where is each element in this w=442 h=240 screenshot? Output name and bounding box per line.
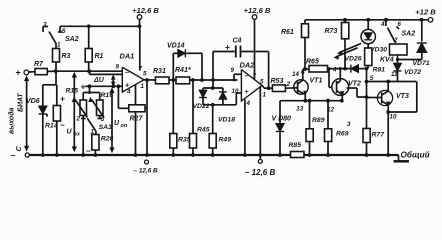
junction R27 bus <box>145 153 149 157</box>
terminal -12.6V left <box>145 160 149 164</box>
resistor R89 <box>309 101 311 129</box>
svg-text:3: 3 <box>347 121 351 128</box>
diode VD22 <box>199 90 207 97</box>
switch SA2 section 1 lever <box>49 32 56 45</box>
svg-text:VD6: VD6 <box>26 98 40 105</box>
svg-text:9: 9 <box>116 64 120 71</box>
svg-text:R31: R31 <box>153 68 166 75</box>
svg-text:VD14: VD14 <box>167 43 185 50</box>
svg-text:R73: R73 <box>325 28 338 35</box>
resistor R73 <box>344 20 346 23</box>
junction R73 rail <box>343 18 347 22</box>
wire emitter rail <box>280 100 342 102</box>
svg-text:R77: R77 <box>372 132 386 139</box>
resistor R27 <box>129 105 145 112</box>
svg-text:R69: R69 <box>336 131 349 138</box>
resistor R69 <box>326 99 330 103</box>
zener diode VD6 <box>39 106 47 114</box>
junction R1 bottom <box>87 69 91 73</box>
wire R31 to R41 <box>169 79 176 81</box>
transistor VT2 emitter <box>337 91 342 95</box>
svg-text:12: 12 <box>327 107 334 114</box>
transistor VT2 base bar <box>336 81 338 93</box>
svg-text:ΔU: ΔU <box>93 77 105 84</box>
wire DA2 pin4 to bus <box>244 100 246 156</box>
resistor R41 <box>176 77 190 84</box>
junction R27 left <box>117 84 121 88</box>
svg-text:10: 10 <box>390 114 397 121</box>
switch SA2 section 2 lever <box>388 28 396 44</box>
svg-text:R3: R3 <box>62 53 71 60</box>
svg-text:С: С <box>14 146 23 152</box>
svg-text:C4: C4 <box>233 38 242 45</box>
capacitor C4 <box>235 46 237 58</box>
resistor R49 <box>212 105 214 134</box>
transistor VT1 emitter <box>298 91 305 95</box>
wire R41 to clamp <box>190 79 238 81</box>
svg-text:2: 2 <box>393 37 398 44</box>
svg-text:R53: R53 <box>271 78 284 85</box>
svg-text:VT3: VT3 <box>396 93 409 100</box>
svg-text:3: 3 <box>101 116 105 123</box>
svg-text:+: + <box>81 82 86 92</box>
wire R61 column <box>304 38 306 70</box>
wire R65 to VT2 base <box>328 68 330 70</box>
junction divider top <box>88 84 92 88</box>
svg-text:R49: R49 <box>219 137 232 144</box>
wire DA1 supply column <box>139 26 141 70</box>
svg-text:SA3: SA3 <box>99 124 112 131</box>
junction R14 bus <box>55 153 59 157</box>
svg-text:R27: R27 <box>130 116 144 123</box>
svg-text:1: 1 <box>57 42 61 49</box>
measurement arrow Uop <box>111 90 113 151</box>
svg-text:VD18: VD18 <box>218 117 235 124</box>
ground symbol <box>398 155 400 161</box>
junction VD6 bus <box>41 153 45 157</box>
svg-text:R81: R81 <box>373 67 386 74</box>
svg-text:KV4: KV4 <box>380 57 394 64</box>
wire R27 left bracket <box>117 86 119 108</box>
svg-text:13: 13 <box>296 105 303 112</box>
switch SA3 lever <box>87 118 96 132</box>
diode VD14 <box>178 49 186 57</box>
svg-text:выхода: выхода <box>8 107 16 134</box>
variable resistor R15 <box>80 100 87 116</box>
resistor R65 <box>305 68 309 70</box>
svg-text:Общий: Общий <box>401 150 430 160</box>
LED VD30 emission arrows <box>340 44 361 53</box>
wire SA3 to bus <box>82 119 84 156</box>
switch SA2 section 2 contact 4 <box>385 20 387 26</box>
resistor R7 <box>29 71 35 73</box>
wire VD6 to bus <box>42 114 44 155</box>
svg-text:9: 9 <box>231 67 235 74</box>
op-amp DA1 triangle <box>122 67 144 92</box>
svg-text:R65: R65 <box>306 59 319 66</box>
svg-text:SA2: SA2 <box>65 36 79 43</box>
svg-text:5: 5 <box>260 79 264 86</box>
svg-text:R85: R85 <box>289 142 302 149</box>
wire clamp top bracket <box>212 80 214 88</box>
resistor R85 <box>291 152 305 158</box>
svg-text:VT2: VT2 <box>348 81 361 88</box>
junction DA1 supply <box>138 24 142 28</box>
terminal input plus <box>24 70 29 75</box>
wire VD80 to bus <box>279 132 281 155</box>
junction clamp top <box>211 78 215 82</box>
resistor R31 <box>156 77 170 84</box>
wire R27 right bracket <box>145 107 147 109</box>
diode VD18 <box>219 92 227 99</box>
wire DA2 output to R53 <box>262 85 272 88</box>
switch SA2 section 1 contact 5 <box>59 26 61 32</box>
terminal output minus <box>25 153 29 157</box>
svg-text:1: 1 <box>141 83 145 90</box>
junction VD14 right <box>200 78 204 82</box>
resistor R35 <box>172 80 174 134</box>
wire DA2 pin1 to bus <box>259 87 261 155</box>
svg-text:БИАТ: БИАТ <box>18 93 25 112</box>
junction DA2 output <box>267 86 271 90</box>
wire upper signal <box>52 70 122 72</box>
terminal +12.6V right <box>252 15 257 20</box>
wire VD26 right <box>359 68 367 70</box>
wire bottom bus right <box>304 154 399 156</box>
junction Uop arrow <box>111 84 115 88</box>
measurement arrow battery <box>26 78 28 150</box>
wire VD71 return <box>421 52 423 60</box>
relay coil KV4 <box>390 44 408 55</box>
switch SA3 contact 2 <box>82 116 84 119</box>
transistor VT3 emitter <box>382 101 388 105</box>
resistor R1 <box>88 26 90 48</box>
wire DA1 output <box>144 79 156 81</box>
junction SA2 rail <box>384 18 388 22</box>
svg-text:–: – <box>60 120 65 130</box>
svg-text:V D80: V D80 <box>272 116 292 123</box>
svg-text:+12,6 В: +12,6 В <box>244 6 271 15</box>
svg-text:–: – <box>245 73 249 80</box>
terminal -12.6V right <box>259 155 261 159</box>
switch SA3 contact 3 <box>99 116 101 119</box>
wire lower input node <box>85 85 122 87</box>
junction VT1 emitter <box>303 99 307 103</box>
svg-text:– 12,6 В: – 12,6 В <box>134 168 159 175</box>
transistor VT3 circle <box>377 90 392 105</box>
svg-text:оп: оп <box>121 123 128 129</box>
svg-text:+: + <box>225 42 230 52</box>
resistor R14 <box>56 85 58 106</box>
transistor VT1 circle <box>294 80 308 94</box>
svg-text:R1: R1 <box>95 53 104 60</box>
diode VD72 <box>394 63 402 71</box>
resistor R45 <box>192 80 194 134</box>
junction VT1 collector node <box>303 67 307 71</box>
svg-text:14: 14 <box>292 71 299 78</box>
diode VD14 loop <box>172 53 174 80</box>
svg-text:VD72: VD72 <box>404 69 421 76</box>
wire upper signal jog <box>89 71 91 74</box>
wire relay drive <box>367 81 417 83</box>
op-amp DA2 triangle <box>241 70 262 102</box>
diode VD71 <box>417 43 427 53</box>
switch SA2 section 1 contact 3 <box>42 27 44 33</box>
diode VD80 wire <box>279 101 281 124</box>
transistor VT3 collector <box>382 91 389 95</box>
svg-text:R7: R7 <box>34 61 44 68</box>
svg-text:DA2: DA2 <box>240 61 256 70</box>
svg-text:4: 4 <box>246 100 251 107</box>
wire DA2 supply column <box>254 19 256 79</box>
svg-text:+12,6 В: +12,6 В <box>132 6 159 15</box>
svg-text:3: 3 <box>43 22 47 29</box>
junction VD71 rail <box>420 18 424 22</box>
wire terminal to rail <box>139 19 141 26</box>
svg-text:VD26: VD26 <box>345 56 362 63</box>
wire clamp bottom bracket <box>202 98 204 105</box>
wire drive column <box>366 69 368 97</box>
svg-text:1: 1 <box>263 92 267 99</box>
svg-text:R14: R14 <box>45 123 58 130</box>
wire R53 to VT1 base <box>285 87 297 89</box>
transistor VT2 collector <box>337 81 341 84</box>
junction R73 VD26 wire <box>343 67 347 71</box>
wire DA1 pin4 to bus <box>135 85 137 155</box>
svg-text:VT1: VT1 <box>310 78 323 85</box>
transistor VT2 circle <box>332 79 349 96</box>
resistor R77 <box>366 97 368 129</box>
transistor VT1 base bar <box>297 82 299 93</box>
resistor R61 <box>304 20 306 24</box>
deltaU double arrow <box>112 77 114 85</box>
diode VD80 <box>276 124 284 132</box>
svg-text:+: + <box>60 94 65 104</box>
svg-text:R45: R45 <box>197 127 210 134</box>
LED VD30 <box>367 20 369 30</box>
svg-text:–: – <box>125 68 129 77</box>
terminal +12V <box>428 18 433 23</box>
svg-text:– 12,6 В: – 12,6 В <box>245 168 275 177</box>
junction R3 bottom <box>54 69 58 73</box>
transistor VT3 base bar <box>381 93 383 104</box>
svg-text:7: 7 <box>139 66 143 73</box>
wire VD72 to drive <box>397 71 399 81</box>
resistor R20 <box>94 132 97 135</box>
svg-text:R15: R15 <box>66 88 79 95</box>
wire VD26 left <box>329 68 350 70</box>
wire +12.6V rail to SA2 <box>60 25 140 27</box>
svg-text:вх: вх <box>74 132 81 138</box>
svg-text:R41*: R41* <box>175 67 191 74</box>
svg-text:4: 4 <box>332 67 337 74</box>
svg-text:R61: R61 <box>281 29 294 36</box>
svg-text:5: 5 <box>62 28 66 35</box>
svg-text:R89: R89 <box>312 117 325 124</box>
transistor VT1 collector <box>298 80 303 84</box>
svg-text:+12 В: +12 В <box>415 8 436 17</box>
wire DA2 upper input jog <box>233 74 235 80</box>
wire VT3 right loop <box>416 82 418 113</box>
diode VD26 <box>351 65 359 73</box>
junction VD14 left <box>171 78 175 82</box>
variable resistor R16 <box>97 100 104 116</box>
diode VD71 column <box>421 20 423 42</box>
svg-text:2: 2 <box>76 116 81 123</box>
wire divider split <box>89 86 91 92</box>
measurement arrow Uvx <box>73 74 75 150</box>
junction R27 output <box>145 78 149 82</box>
svg-text:4: 4 <box>380 21 385 28</box>
svg-text:DA1: DA1 <box>120 52 135 61</box>
junction LED rail <box>366 18 370 22</box>
svg-text:2: 2 <box>286 81 291 88</box>
resistor R53 <box>272 85 285 92</box>
junction R1 top <box>87 24 91 28</box>
junction R49 top <box>211 103 215 107</box>
svg-text:4: 4 <box>126 89 131 96</box>
resistor R81 <box>365 48 372 66</box>
svg-text:5: 5 <box>143 71 147 78</box>
resistor R3 <box>55 44 57 49</box>
svg-text:+: + <box>16 68 21 78</box>
terminal +12.6V left <box>137 15 142 20</box>
wire jog to VD6 <box>55 71 57 85</box>
svg-text:10: 10 <box>232 88 239 95</box>
svg-text:VD71: VD71 <box>413 60 430 67</box>
svg-text:+: + <box>245 89 249 96</box>
svg-text:SA2: SA2 <box>402 31 416 38</box>
wire VT3 base <box>366 96 368 99</box>
wire KV4 bottom <box>397 55 399 63</box>
wire bottom bus left <box>29 154 291 156</box>
wire +12V rail <box>305 19 428 21</box>
capacitor C4 loop <box>212 52 214 81</box>
